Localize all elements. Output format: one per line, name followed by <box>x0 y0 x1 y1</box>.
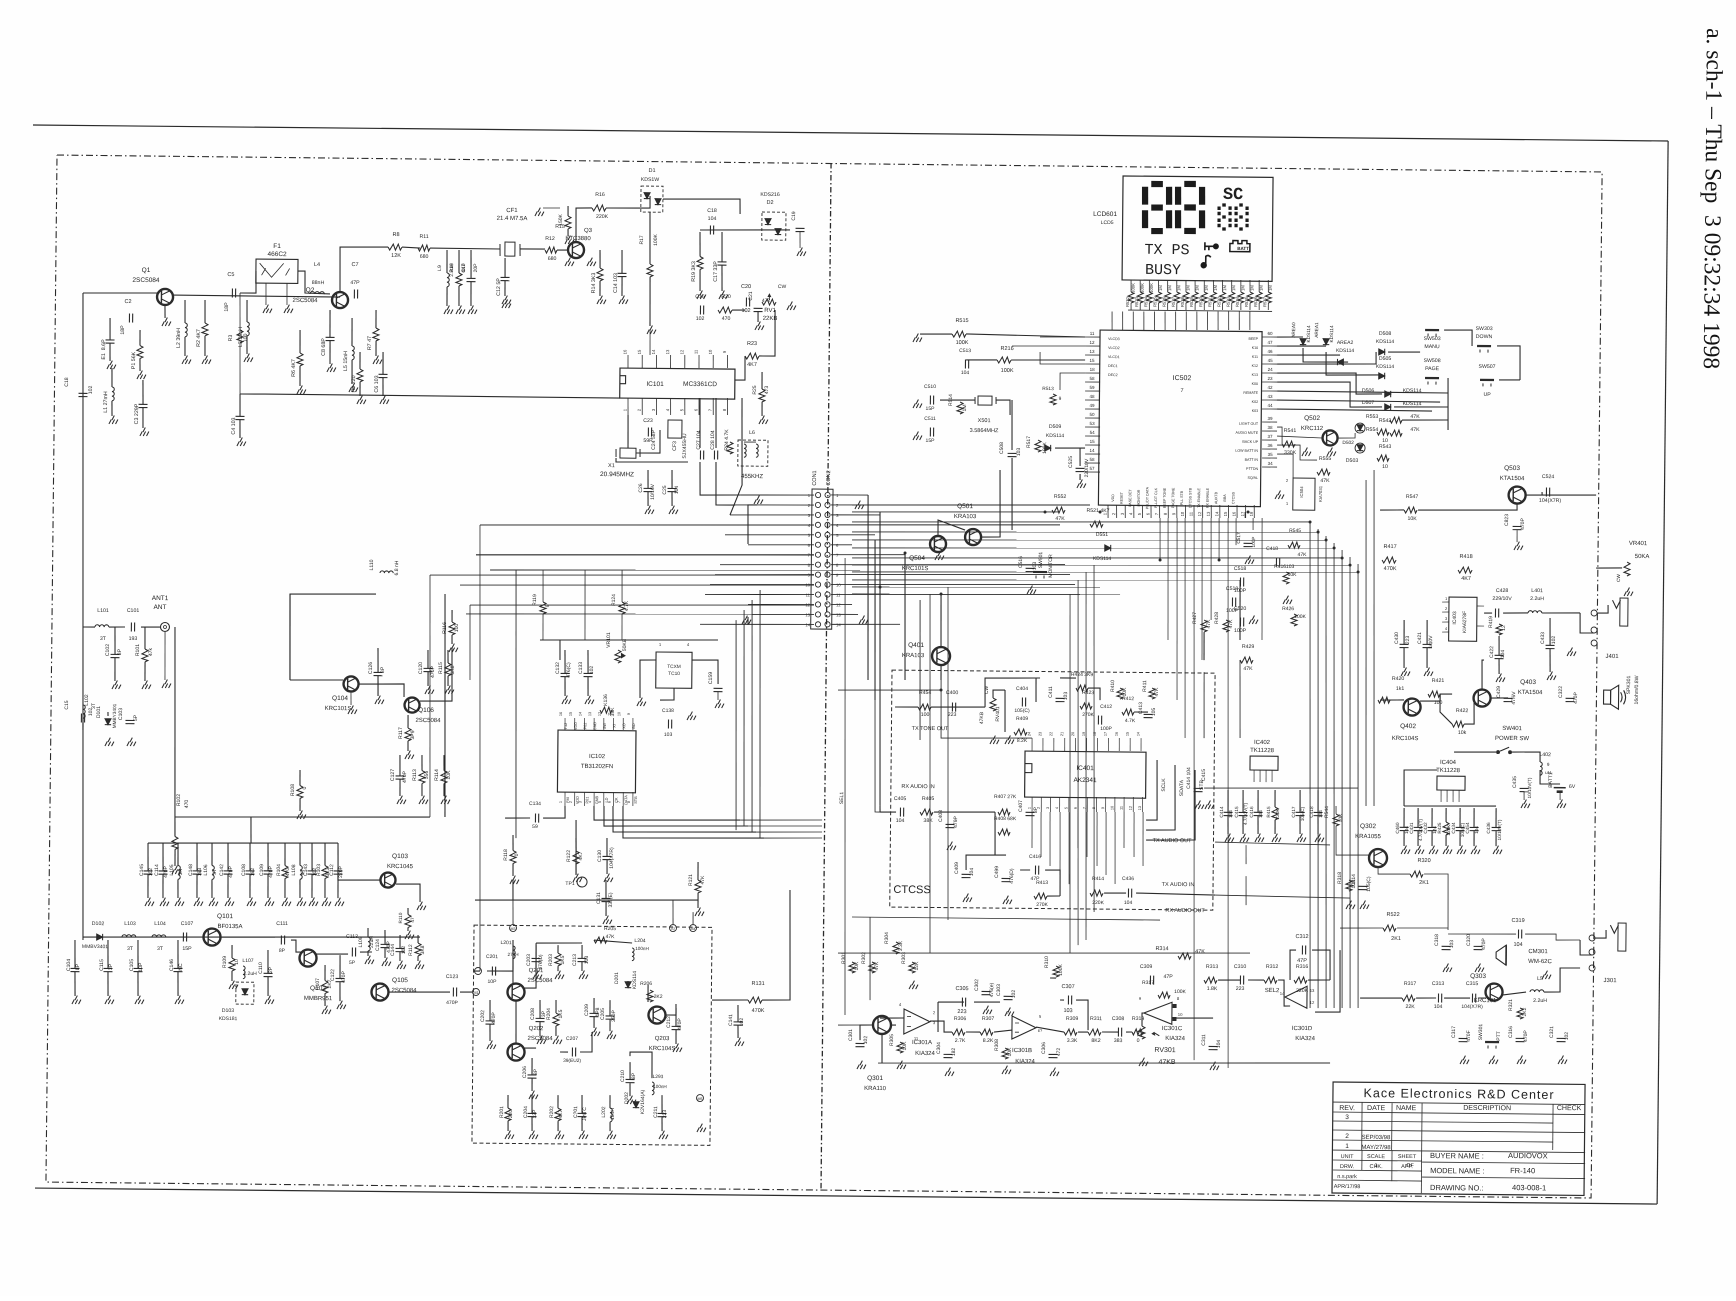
svg-text:10: 10 <box>1382 464 1388 470</box>
svg-text:1K5: 1K5 <box>560 955 566 964</box>
IC101 top pins <box>627 355 629 368</box>
IC401 top pins <box>1031 738 1033 751</box>
svg-text:C315: C315 <box>1466 981 1479 987</box>
svg-text:R309: R309 <box>1066 1016 1079 1022</box>
svg-text:13: 13 <box>1206 511 1211 516</box>
svg-text:10nH: 10nH <box>610 1108 616 1120</box>
svg-text:16ohm/0.8W: 16ohm/0.8W <box>1634 675 1640 704</box>
wire Q3 collector up <box>576 208 592 242</box>
svg-text:470P: 470P <box>430 665 436 678</box>
svg-text:15: 15 <box>637 349 642 354</box>
IC502 bottom pin drop wires <box>1159 518 1162 560</box>
svg-text:R517: R517 <box>1026 436 1032 448</box>
LED D503 <box>1355 443 1365 453</box>
svg-text:C321: C321 <box>1549 1026 1555 1038</box>
svg-text:36: 36 <box>1268 443 1274 448</box>
svg-text:7: 7 <box>617 801 621 803</box>
wire into VCO M4 from divider <box>693 911 790 913</box>
svg-text:11: 11 <box>608 712 612 716</box>
svg-text:C207: C207 <box>566 1036 578 1042</box>
capacitor C124 470P <box>384 930 386 944</box>
svg-text:R421: R421 <box>1432 678 1445 684</box>
transistor Q2 <box>332 292 348 308</box>
svg-text:PTTDN: PTTDN <box>1246 467 1258 471</box>
svg-text:3.3K: 3.3K <box>1067 1038 1078 1044</box>
svg-text:10K: 10K <box>902 1041 908 1051</box>
svg-text:C102: C102 <box>105 644 111 656</box>
svg-text:a. sch-1 – Thu Sep 3 09:32:34: a. sch-1 – Thu Sep 3 09:32:34 1998 <box>1698 28 1727 369</box>
wire Q102 to C113 <box>316 953 348 956</box>
VCO dashed enclosure <box>472 925 712 1145</box>
svg-text:47K: 47K <box>1055 516 1065 522</box>
svg-text:102: 102 <box>1551 636 1557 645</box>
svg-text:C306: C306 <box>1041 1042 1047 1054</box>
svg-text:Q302: Q302 <box>1360 823 1376 830</box>
svg-text:12: 12 <box>1310 1000 1315 1005</box>
svg-text:2.7K: 2.7K <box>955 1038 966 1044</box>
svg-text:C319: C319 <box>1512 918 1525 924</box>
svg-text:C16: C16 <box>695 294 705 300</box>
wire vertical x175 segment <box>173 627 177 817</box>
svg-text:R412: R412 <box>1122 696 1134 702</box>
svg-text:BD: BD <box>632 723 636 729</box>
svg-text:12: 12 <box>598 712 602 716</box>
svg-text:C134: C134 <box>529 801 541 807</box>
svg-text:C110: C110 <box>258 962 264 974</box>
capacitor C133 102 <box>587 650 590 673</box>
wire IC101 pin1 down to X1 <box>627 415 630 448</box>
svg-text:K136: K136 <box>603 694 609 706</box>
svg-text:470P: 470P <box>341 970 347 982</box>
svg-text:17: 17 <box>1104 732 1108 736</box>
svg-text:D201: D201 <box>614 972 620 984</box>
transistor Q503 KTA1504 <box>1509 486 1526 503</box>
svg-text:104: 104 <box>969 868 975 877</box>
svg-text:MANU: MANU <box>1424 344 1440 350</box>
transistor Q501 KRA103 <box>965 529 981 545</box>
svg-text:K03: K03 <box>1252 409 1258 413</box>
svg-text:9: 9 <box>627 713 631 715</box>
svg-text:R542: R542 <box>1379 418 1392 424</box>
svg-text:SW301: SW301 <box>1478 1024 1484 1041</box>
svg-text:100K: 100K <box>1149 283 1154 293</box>
svg-text:12K: 12K <box>391 253 401 259</box>
svg-text:C202: C202 <box>480 1010 486 1022</box>
wires vertical bus to op-amp area <box>1309 905 1311 912</box>
wire IC101 outputs right <box>741 398 743 420</box>
svg-text:L5 15nH: L5 15nH <box>343 351 349 371</box>
svg-text:KRC112: KRC112 <box>1301 426 1324 432</box>
LCD key icon <box>1205 242 1218 250</box>
svg-text:KDS114: KDS114 <box>1376 364 1395 370</box>
svg-text:17: 17 <box>1240 511 1245 516</box>
transistor Q106 2SC5084 <box>404 697 419 712</box>
transistor Q103 KRC1045 <box>380 872 395 887</box>
svg-text:C316: C316 <box>1508 1026 1514 1038</box>
LCD small 7-segment 88 <box>1222 203 1227 206</box>
test point TP1 <box>577 877 587 887</box>
svg-text:1M: 1M <box>962 404 968 411</box>
svg-text:KIA7031: KIA7031 <box>1318 485 1323 502</box>
svg-text:R305: R305 <box>889 1034 895 1046</box>
svg-text:470K: 470K <box>1384 566 1397 572</box>
svg-text:C143: C143 <box>303 864 309 876</box>
svg-text:470P: 470P <box>402 770 408 783</box>
svg-text:C113: C113 <box>346 934 358 940</box>
svg-text:R2 4K7: R2 4K7 <box>196 329 202 347</box>
svg-text:R424 3K9: R424 3K9 <box>1071 672 1094 678</box>
svg-text:C305: C305 <box>955 986 968 992</box>
svg-text:58: 58 <box>1090 457 1096 462</box>
svg-text:C408: C408 <box>938 810 944 822</box>
svg-text:10: 10 <box>836 583 841 588</box>
svg-text:C517: C517 <box>1236 532 1241 544</box>
svg-text:C409: C409 <box>954 862 960 874</box>
svg-text:C112: C112 <box>329 864 335 876</box>
svg-text:C303: C303 <box>996 984 1002 996</box>
svg-text:14: 14 <box>1136 732 1140 736</box>
svg-text:DATE: DATE <box>1367 1105 1386 1112</box>
svg-text:KRA1055: KRA1055 <box>1355 834 1381 840</box>
svg-text:BACK UP: BACK UP <box>1242 440 1258 444</box>
transistor Q403 KTA1504 <box>1473 689 1490 706</box>
svg-text:C322: C322 <box>1558 686 1564 698</box>
svg-text:8.2K: 8.2K <box>983 1038 994 1044</box>
svg-text:VR401: VR401 <box>1629 541 1648 547</box>
transistor Q502 KRC112 <box>1322 430 1337 445</box>
svg-text:12: 12 <box>1501 625 1507 631</box>
svg-text:3.5864MHZ: 3.5864MHZ <box>970 428 999 434</box>
capacitor C6 103 <box>382 352 384 374</box>
resistor R2 4K7 <box>204 300 206 323</box>
svg-text:CON2: CON2 <box>826 470 832 485</box>
inductor L104 3T <box>152 935 166 937</box>
svg-text:C454: C454 <box>1465 822 1470 834</box>
wire x585 drop <box>584 570 585 640</box>
wire verticals IC102 bus up to connector <box>734 620 738 830</box>
svg-text:47K: 47K <box>1243 666 1253 672</box>
svg-text:39: 39 <box>1268 416 1274 421</box>
svg-text:R12: R12 <box>545 236 555 242</box>
svg-text:R118: R118 <box>503 849 509 861</box>
svg-text:R102: R102 <box>176 794 182 806</box>
svg-text:E1 8.6P: E1 8.6P <box>101 339 107 360</box>
svg-text:57: 57 <box>1090 466 1096 471</box>
svg-text:R535: R535 <box>1244 296 1249 307</box>
svg-text:C405: C405 <box>894 796 907 802</box>
svg-text:GND: GND <box>593 722 597 731</box>
svg-text:CON1: CON1 <box>812 470 818 485</box>
svg-text:2.2uH: 2.2uH <box>1530 596 1544 602</box>
svg-text:34: 34 <box>1268 461 1274 466</box>
svg-text:476(D): 476(D) <box>1009 868 1015 884</box>
svg-text:TX AUDIO OUT: TX AUDIO OUT <box>1153 838 1193 844</box>
svg-text:104: 104 <box>1434 1004 1443 1010</box>
svg-text:C307: C307 <box>1061 984 1074 990</box>
svg-text:104: 104 <box>1500 650 1506 659</box>
svg-text:R7 47: R7 47 <box>367 336 373 350</box>
svg-text:C308: C308 <box>1112 1016 1125 1022</box>
svg-text:R554: R554 <box>1366 427 1379 433</box>
capacitor C107 15P <box>183 932 186 941</box>
svg-text:Q401: Q401 <box>908 642 924 649</box>
svg-text:466C2: 466C2 <box>267 251 287 258</box>
long verticals right block <box>1239 660 1241 738</box>
svg-text:R552: R552 <box>1054 494 1067 500</box>
svg-text:21: 21 <box>1060 732 1064 736</box>
connector right side stub wires <box>831 494 868 497</box>
svg-text:Q1: Q1 <box>142 267 151 274</box>
diode D103 KDS181 dashed box <box>236 982 254 1004</box>
svg-text:KIA6278F: KIA6278F <box>1462 611 1468 633</box>
svg-text:K02: K02 <box>1252 400 1258 404</box>
op-amp IC301D KIA324 <box>1285 986 1307 1008</box>
svg-text:R541: R541 <box>1284 428 1297 434</box>
wire F1 to L4 <box>298 271 330 294</box>
svg-text:100K: 100K <box>956 340 969 346</box>
svg-text:C109: C109 <box>259 864 265 876</box>
svg-text:C411: C411 <box>1048 686 1054 698</box>
center dashed divider <box>821 163 831 1190</box>
svg-text:R531: R531 <box>1207 296 1212 307</box>
svg-text:RV401: RV401 <box>995 706 1001 721</box>
svg-text:P02: P02 <box>583 723 587 730</box>
svg-text:R306: R306 <box>954 1016 967 1022</box>
svg-text:R417: R417 <box>1384 544 1397 550</box>
svg-text:JP/TC: JP/TC <box>582 1107 588 1121</box>
node M1 feed wire <box>474 970 480 972</box>
svg-text:IC502: IC502 <box>1173 375 1192 382</box>
svg-text:C416: C416 <box>1029 854 1041 860</box>
svg-text:220: 220 <box>508 1110 514 1119</box>
svg-text:AREA0: AREA0 <box>1291 322 1296 338</box>
svg-text:R528: R528 <box>1180 296 1185 307</box>
diode D102 MMBV3401 <box>97 934 103 940</box>
wires connector left long runs <box>480 522 814 528</box>
svg-text:20: 20 <box>1071 732 1075 736</box>
svg-text:MAY/27/98: MAY/27/98 <box>1361 1145 1391 1151</box>
svg-text:C317: C317 <box>1451 1026 1457 1038</box>
svg-text:C148: C148 <box>188 864 194 876</box>
svg-text:1M: 1M <box>1204 285 1209 291</box>
svg-text:C205: C205 <box>600 1008 606 1020</box>
svg-text:R515: R515 <box>955 318 968 324</box>
svg-text:KIA324: KIA324 <box>1165 1036 1185 1042</box>
svg-text:15P: 15P <box>926 406 936 412</box>
svg-text:C513: C513 <box>959 348 971 354</box>
capacitor C421 1/10V <box>1426 620 1428 644</box>
svg-text:11: 11 <box>694 349 699 354</box>
svg-text:12: 12 <box>1129 806 1133 810</box>
svg-text:SC: SC <box>1223 186 1244 205</box>
svg-text:3T: 3T <box>100 636 107 642</box>
svg-text:270K: 270K <box>1036 902 1048 908</box>
resistor R108 0 <box>299 770 301 786</box>
capacitor C144 102 <box>399 935 401 948</box>
resistor R203 1K5 <box>557 945 559 953</box>
svg-text:53: 53 <box>1090 421 1096 426</box>
svg-text:R205: R205 <box>604 926 616 932</box>
svg-text:47K: 47K <box>874 961 880 971</box>
svg-text:R544: R544 <box>1324 806 1330 818</box>
svg-text:4: 4 <box>1055 807 1059 809</box>
capacitor C102 8P <box>114 627 117 654</box>
svg-text:AK2341: AK2341 <box>1073 777 1097 784</box>
svg-text:D505: D505 <box>1379 356 1392 362</box>
svg-text:470: 470 <box>184 800 190 809</box>
svg-text:Q504: Q504 <box>909 555 925 562</box>
svg-text:39(EU2): 39(EU2) <box>563 1058 581 1064</box>
svg-text:100: 100 <box>921 712 930 718</box>
svg-text:R10: R10 <box>449 263 455 272</box>
svg-text:K11: K11 <box>1252 355 1258 359</box>
svg-text:R537: R537 <box>1262 296 1267 307</box>
IC102 TB31202FN outline <box>557 730 636 793</box>
svg-text:470P: 470P <box>1481 938 1487 950</box>
svg-text:L107: L107 <box>242 958 253 964</box>
svg-text:R101: R101 <box>135 644 141 656</box>
svg-text:C206: C206 <box>522 1066 528 1078</box>
svg-text:R420: R420 <box>1392 676 1405 682</box>
svg-text:BBA: BBA <box>1223 494 1227 502</box>
svg-text:AREA1: AREA1 <box>1314 322 1319 338</box>
svg-text:VLCD3: VLCD3 <box>1108 337 1120 341</box>
svg-text:K00: K00 <box>1252 382 1258 386</box>
svg-text:37: 37 <box>1268 434 1274 439</box>
svg-text:104: 104 <box>1228 810 1233 818</box>
svg-text:8P: 8P <box>380 666 386 673</box>
svg-text:2: 2 <box>1345 1133 1349 1140</box>
svg-text:105: 105 <box>1151 708 1157 717</box>
svg-text:KIA324: KIA324 <box>1295 1036 1315 1042</box>
svg-text:R514: R514 <box>948 394 954 406</box>
svg-text:M5: M5 <box>698 1097 703 1101</box>
svg-text:C311: C311 <box>1201 1034 1207 1046</box>
svg-text:C301: C301 <box>848 1029 854 1041</box>
svg-text:R25: R25 <box>752 385 758 394</box>
svg-text:R16: R16 <box>595 192 605 198</box>
svg-text:KDS114: KDS114 <box>1046 433 1065 439</box>
wire row y900 to dashed box <box>475 898 698 902</box>
svg-text:R23: R23 <box>747 341 757 347</box>
bus CON2 to right : horizontal lines <box>852 503 1090 507</box>
svg-text:50KA: 50KA <box>1635 554 1650 560</box>
svg-text:1k1: 1k1 <box>1396 686 1405 692</box>
svg-text:3T: 3T <box>212 869 218 875</box>
svg-text:4.7K: 4.7K <box>1125 718 1136 724</box>
svg-text:ANT: ANT <box>153 604 166 611</box>
svg-text:C201: C201 <box>486 954 498 960</box>
svg-text:105(C): 105(C) <box>1014 708 1030 714</box>
svg-text:1: 1 <box>1028 807 1032 809</box>
svg-text:Q106: Q106 <box>418 707 434 714</box>
svg-text:IC402: IC402 <box>1254 740 1271 746</box>
svg-text:C23: C23 <box>643 418 653 424</box>
svg-text:CHK.: CHK. <box>1369 1164 1383 1170</box>
jack J301 <box>1589 935 1595 941</box>
svg-text:R201: R201 <box>499 1106 505 1118</box>
svg-text:C138: C138 <box>662 708 674 714</box>
bottom rail wire <box>878 1059 1330 1068</box>
svg-text:C114: C114 <box>154 864 160 876</box>
svg-text:P1 56K: P1 56K <box>131 351 137 369</box>
svg-text:R20: R20 <box>721 294 731 300</box>
capacitor C110 2P <box>267 950 269 973</box>
svg-text:R513: R513 <box>1042 386 1054 392</box>
svg-text:R19 3K3: R19 3K3 <box>691 261 697 282</box>
wire to RV1 <box>732 309 745 311</box>
resistor R107 2K7 <box>324 965 326 981</box>
svg-text:R427: R427 <box>1192 612 1198 624</box>
svg-text:SQ/AL: SQ/AL <box>1247 476 1258 480</box>
wire left rail x83 <box>77 293 89 940</box>
node M3 <box>509 925 516 932</box>
svg-text:21.4 M7.5A: 21.4 M7.5A <box>497 216 528 222</box>
capacitor C4 103 <box>239 394 241 416</box>
wire R544 column down <box>1245 845 1247 864</box>
svg-text:13: 13 <box>1090 349 1096 354</box>
svg-text:8: 8 <box>627 801 631 803</box>
transistor Q202 2SC5084 <box>507 1043 524 1060</box>
svg-text:F1: F1 <box>273 243 281 250</box>
svg-text:C412: C412 <box>1100 704 1112 710</box>
svg-text:C24 58P: C24 58P <box>651 429 657 449</box>
svg-text:C429: C429 <box>1496 686 1502 698</box>
svg-text:102: 102 <box>88 386 94 395</box>
wire Q1 base-emitter <box>164 305 166 318</box>
capacitor C126 8P <box>377 648 380 672</box>
svg-text:DRAWING NO.:: DRAWING NO.: <box>1430 1183 1484 1193</box>
svg-text:8.2K: 8.2K <box>1017 738 1028 744</box>
svg-text:11: 11 <box>836 593 841 598</box>
capacitor C209 1P8 <box>593 998 595 1013</box>
svg-text:10K: 10K <box>1407 516 1417 522</box>
svg-text:C126: C126 <box>368 662 374 674</box>
svg-text:2.2uH: 2.2uH <box>1533 998 1547 1004</box>
svg-text:R522: R522 <box>1125 296 1130 307</box>
svg-text:7: 7 <box>1181 388 1184 394</box>
svg-text:C407: C407 <box>1018 800 1024 812</box>
svg-text:C203: C203 <box>526 954 532 966</box>
svg-text:R304: R304 <box>884 932 890 944</box>
svg-text:104(X7R): 104(X7R) <box>1539 498 1562 504</box>
IC403 KIA6278F outline <box>1449 597 1477 641</box>
svg-text:100K: 100K <box>1131 283 1136 293</box>
wire rail y640 <box>540 638 718 641</box>
svg-text:223: 223 <box>957 1009 966 1015</box>
wire RX AUDIO OUT long <box>852 917 1160 920</box>
svg-text:35: 35 <box>1268 452 1274 457</box>
capacitor C210 8P <box>629 1062 631 1079</box>
svg-text:L9: L9 <box>437 265 443 271</box>
junction dots on bus <box>1044 511 1047 514</box>
svg-text:220K: 220K <box>1275 808 1280 820</box>
svg-text:C415: C415 <box>1234 806 1239 818</box>
svg-text:C142: C142 <box>219 864 225 876</box>
svg-text:R405: R405 <box>922 796 935 802</box>
svg-text:4K7: 4K7 <box>747 362 757 368</box>
svg-text:C103: C103 <box>118 708 124 720</box>
svg-text:DRW.: DRW. <box>1340 1164 1355 1170</box>
svg-text:K2V164(A): K2V164(A) <box>640 1089 646 1114</box>
svg-text:220K: 220K <box>596 214 609 220</box>
IC101 bottom pins <box>627 398 629 415</box>
svg-text:R14 3K3: R14 3K3 <box>591 273 597 294</box>
svg-text:105(C): 105(C) <box>1366 876 1372 892</box>
svg-text:13: 13 <box>588 712 592 716</box>
svg-text:223: 223 <box>1236 986 1245 992</box>
svg-text:C107: C107 <box>181 921 194 927</box>
